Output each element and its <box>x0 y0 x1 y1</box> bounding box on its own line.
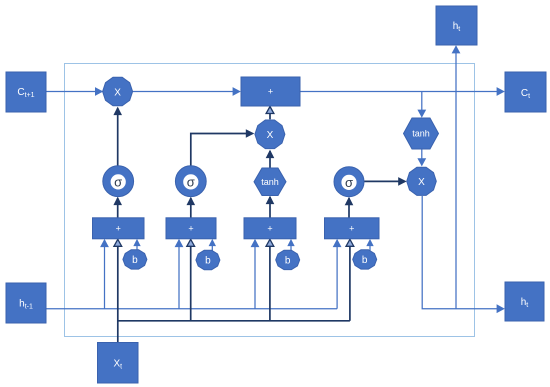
multiply decagon X1 <box>103 77 133 106</box>
tanh hexagon 1 <box>254 168 286 196</box>
svg-text:X: X <box>267 130 274 141</box>
wire tanh1 to X2 <box>266 150 275 168</box>
plus box 2 <box>166 218 216 239</box>
wire sigma1 to X1 <box>113 107 122 166</box>
wire h branch 2 to plus2 <box>175 239 184 309</box>
bias decagon b4 <box>353 250 377 269</box>
wire C branch down to tanh2 <box>417 92 426 118</box>
wire X2 output to plus-rect <box>266 107 274 120</box>
tanh hexagon 2 <box>404 118 439 149</box>
svg-text:b: b <box>285 256 291 267</box>
wire Xt branch to plus2 <box>187 239 195 320</box>
svg-text:tanh: tanh <box>412 129 430 139</box>
wire b2 arrow to plus2 <box>209 239 216 251</box>
box Xt <box>98 343 139 384</box>
wire b4 arrow to plus4 <box>366 239 373 251</box>
svg-text:σ: σ <box>345 175 353 190</box>
plus box 4 <box>325 218 380 239</box>
wire Xt trunk to plus1 <box>114 239 122 342</box>
wire Xt distribution line <box>118 320 350 322</box>
sigma circle 1 <box>103 166 134 197</box>
box Ct <box>505 72 546 112</box>
wire branch up to ht top box <box>452 45 461 309</box>
sigma circle 3 <box>334 167 364 197</box>
svg-text:σ: σ <box>114 174 122 189</box>
wire X1 to plus-rect <box>133 87 241 96</box>
wire h branch 3 to plus3 <box>251 239 260 309</box>
plus box 3 <box>244 218 296 239</box>
wire X3 output to ht bottom box <box>422 196 505 313</box>
svg-text:tanh: tanh <box>261 177 279 187</box>
svg-text:+: + <box>268 87 273 97</box>
wire Ct+1 to X1 <box>46 87 103 96</box>
wire plus2 to sigma2 <box>187 197 196 218</box>
multiply decagon X3 <box>407 167 437 195</box>
multiply decagon X2 <box>255 120 285 149</box>
svg-text:X: X <box>114 87 121 98</box>
svg-text:b: b <box>205 256 211 267</box>
wire b1 arrow to plus1 <box>133 239 140 251</box>
wire b3 arrow to plus3 <box>287 239 294 251</box>
wire h branch 1 to plus1 <box>100 239 109 309</box>
wire sigma2 elbow to X2 <box>191 129 255 166</box>
svg-text:X: X <box>418 177 425 188</box>
wire plus3 to tanh1 <box>266 196 275 218</box>
bias decagon b1 <box>123 250 147 269</box>
svg-text:+: + <box>267 224 272 234</box>
svg-text:+: + <box>188 224 193 234</box>
box ht top <box>436 6 477 45</box>
box ht-1 <box>6 283 46 323</box>
wire tanh2 to X3 <box>417 149 426 166</box>
wire plus1 to sigma1 <box>113 197 122 218</box>
plus box 1 <box>93 218 145 239</box>
wire h-line from ht-1 <box>46 308 337 310</box>
wire sigma3 to X3 <box>364 177 407 186</box>
wire Xt branch to plus4 <box>346 239 354 320</box>
bias decagon b2 <box>196 250 220 269</box>
wire h branch 4 to plus4 <box>333 239 342 309</box>
plus rect top <box>241 77 300 106</box>
cell border <box>65 64 475 337</box>
svg-text:b: b <box>132 255 138 266</box>
wire plus4 to sigma3 <box>345 197 354 218</box>
box Ct+1 <box>6 72 46 112</box>
wire plus-rect to Ct <box>300 87 505 96</box>
sigma circle 2 <box>175 166 206 197</box>
svg-text:+: + <box>349 224 354 234</box>
svg-text:σ: σ <box>187 174 195 189</box>
wire Xt branch to plus3 <box>266 239 274 320</box>
bias decagon b3 <box>276 250 300 269</box>
svg-text:+: + <box>116 224 121 234</box>
box ht bottom <box>505 282 544 321</box>
svg-text:b: b <box>362 255 368 266</box>
